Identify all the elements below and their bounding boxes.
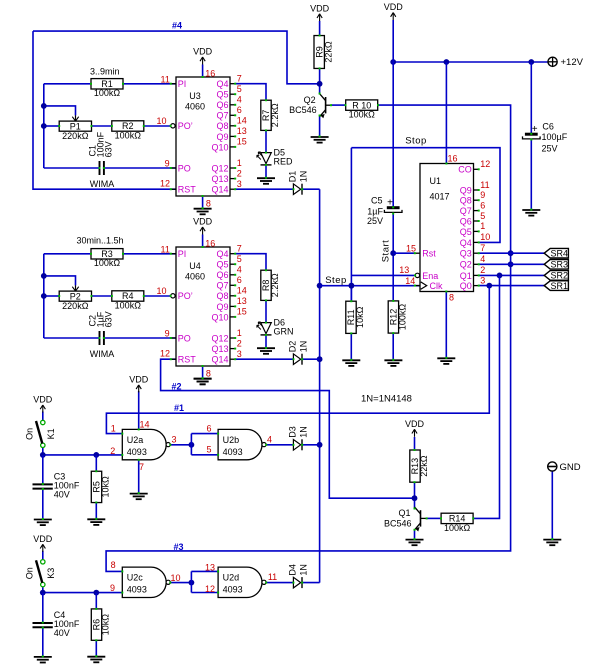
svg-text:RST: RST — [178, 185, 197, 195]
svg-text:8: 8 — [206, 368, 211, 378]
svg-text:+12V: +12V — [561, 57, 584, 68]
svg-text:100kΩ: 100kΩ — [444, 523, 471, 533]
svg-text:VDD: VDD — [33, 534, 53, 544]
svg-text:10: 10 — [170, 573, 180, 583]
svg-text:Step: Step — [325, 275, 347, 286]
svg-text:Q8: Q8 — [460, 196, 472, 206]
svg-text:1: 1 — [480, 221, 485, 231]
svg-text:4093: 4093 — [223, 447, 243, 457]
svg-text:8: 8 — [449, 293, 454, 303]
svg-text:30min..1.5h: 30min..1.5h — [76, 236, 123, 246]
svg-text:U2a: U2a — [127, 435, 144, 445]
svg-text:PO’: PO’ — [178, 121, 193, 131]
svg-text:11: 11 — [161, 244, 170, 254]
svg-text:15: 15 — [237, 307, 247, 317]
svg-text:VDD: VDD — [129, 374, 149, 384]
svg-text:U1: U1 — [430, 176, 442, 186]
svg-text:10: 10 — [157, 286, 167, 296]
svg-text:VDD: VDD — [405, 419, 425, 429]
svg-text:9: 9 — [480, 190, 485, 200]
svg-text:Rst: Rst — [422, 249, 436, 259]
svg-text:12: 12 — [160, 349, 170, 359]
svg-text:7: 7 — [480, 243, 485, 253]
svg-text:+: + — [387, 198, 393, 209]
svg-text:40V: 40V — [54, 628, 70, 638]
svg-text:U4: U4 — [189, 261, 201, 271]
svg-text:Q6: Q6 — [216, 100, 228, 110]
svg-text:1N: 1N — [299, 171, 309, 183]
svg-text:1N=1N4148: 1N=1N4148 — [361, 394, 412, 405]
svg-text:Q9: Q9 — [216, 302, 228, 312]
svg-text:12: 12 — [480, 159, 490, 169]
svg-text:220kΩ: 220kΩ — [62, 301, 89, 311]
svg-text:4: 4 — [237, 95, 242, 105]
svg-text:RST: RST — [178, 355, 197, 365]
svg-text:Q13: Q13 — [211, 344, 228, 354]
svg-text:100µF: 100µF — [542, 132, 568, 142]
svg-text:Q0: Q0 — [460, 281, 472, 291]
svg-text:D4: D4 — [288, 564, 298, 576]
svg-text:U2d: U2d — [223, 573, 240, 583]
svg-text:Q13: Q13 — [211, 174, 228, 184]
svg-text:PO: PO — [178, 163, 191, 173]
svg-text:U2c: U2c — [127, 573, 144, 583]
svg-text:3: 3 — [237, 349, 242, 359]
svg-text:Q4: Q4 — [460, 238, 472, 248]
svg-text:4060: 4060 — [185, 102, 205, 112]
svg-text:U2b: U2b — [223, 435, 240, 445]
svg-text:100kΩ: 100kΩ — [349, 110, 376, 120]
svg-text:4060: 4060 — [185, 272, 205, 282]
svg-text:Clk: Clk — [430, 281, 443, 291]
svg-text:D2: D2 — [288, 341, 298, 353]
svg-text:Q1: Q1 — [398, 508, 410, 518]
svg-text:4093: 4093 — [127, 447, 147, 457]
svg-text:22kΩ: 22kΩ — [323, 41, 333, 63]
svg-text:Ena: Ena — [422, 271, 438, 281]
svg-text:C5: C5 — [371, 195, 383, 205]
svg-text:Q9: Q9 — [216, 132, 228, 142]
svg-text:1: 1 — [111, 424, 116, 434]
svg-text:VDD: VDD — [33, 395, 53, 405]
svg-text:1N: 1N — [299, 564, 309, 576]
svg-text:100kΩ: 100kΩ — [94, 258, 121, 268]
svg-text:WIMA: WIMA — [90, 179, 115, 189]
svg-text:Q14: Q14 — [211, 185, 228, 195]
svg-text:63V: 63V — [104, 311, 114, 327]
svg-text:2.2kΩ: 2.2kΩ — [270, 103, 280, 127]
svg-text:On: On — [24, 428, 34, 440]
svg-text:#3: #3 — [173, 542, 183, 552]
svg-text:14: 14 — [405, 276, 415, 286]
svg-text:16: 16 — [205, 238, 215, 248]
svg-text:4: 4 — [267, 434, 272, 444]
svg-text:Q7: Q7 — [216, 281, 228, 291]
svg-text:15: 15 — [237, 137, 247, 147]
svg-text:10: 10 — [480, 232, 490, 242]
svg-text:Q7: Q7 — [216, 111, 228, 121]
svg-text:GND: GND — [560, 462, 581, 473]
svg-text:Q3: Q3 — [460, 249, 472, 259]
svg-text:25V: 25V — [367, 216, 383, 226]
svg-text:2: 2 — [110, 446, 115, 456]
svg-text:K1: K1 — [46, 428, 56, 439]
svg-text:Q5: Q5 — [460, 227, 472, 237]
svg-text:14: 14 — [237, 286, 247, 296]
svg-text:22kΩ: 22kΩ — [419, 455, 429, 477]
svg-text:Q4: Q4 — [216, 249, 228, 259]
svg-text:7: 7 — [237, 74, 242, 84]
svg-text:4017: 4017 — [430, 191, 450, 201]
svg-text:13: 13 — [237, 296, 247, 306]
svg-text:14: 14 — [139, 419, 149, 429]
svg-text:Start: Start — [381, 240, 392, 263]
svg-text:10kΩ: 10kΩ — [101, 614, 111, 636]
svg-text:RED: RED — [274, 157, 294, 167]
svg-text:SR4: SR4 — [551, 249, 569, 259]
svg-text:CO: CO — [458, 165, 472, 175]
svg-text:2: 2 — [237, 338, 242, 348]
svg-text:12: 12 — [205, 584, 215, 594]
svg-text:100kΩ: 100kΩ — [115, 300, 142, 310]
svg-text:14: 14 — [237, 116, 247, 126]
svg-text:11: 11 — [268, 572, 277, 582]
svg-text:2: 2 — [237, 168, 242, 178]
svg-text:100kΩ: 100kΩ — [398, 304, 408, 331]
svg-text:4: 4 — [237, 265, 242, 275]
svg-text:VDD: VDD — [384, 2, 404, 12]
svg-text:+: + — [532, 124, 538, 135]
svg-text:10kΩ: 10kΩ — [355, 306, 365, 328]
svg-text:Q4: Q4 — [216, 79, 228, 89]
svg-text:5: 5 — [206, 445, 211, 455]
svg-text:4093: 4093 — [127, 585, 147, 595]
svg-text:VDD: VDD — [310, 3, 330, 13]
svg-text:5: 5 — [237, 84, 242, 94]
svg-text:Q7: Q7 — [460, 206, 472, 216]
svg-text:1N: 1N — [299, 426, 309, 438]
svg-text:Q14: Q14 — [211, 355, 228, 365]
svg-text:4093: 4093 — [223, 585, 243, 595]
svg-text:10: 10 — [157, 116, 167, 126]
svg-text:VDD: VDD — [193, 217, 213, 227]
svg-text:Q2: Q2 — [460, 260, 472, 270]
svg-text:5: 5 — [480, 211, 485, 221]
svg-text:13: 13 — [205, 563, 215, 573]
svg-text:C6: C6 — [542, 122, 554, 132]
svg-text:PO’: PO’ — [178, 291, 193, 301]
svg-text:13: 13 — [237, 126, 247, 136]
svg-text:6: 6 — [480, 200, 485, 210]
svg-text:2.2kΩ: 2.2kΩ — [270, 273, 280, 297]
svg-text:D3: D3 — [288, 426, 298, 438]
svg-text:VDD: VDD — [193, 47, 213, 57]
svg-text:3: 3 — [171, 435, 176, 445]
svg-text:Q10: Q10 — [211, 142, 228, 152]
svg-text:7: 7 — [237, 244, 242, 254]
svg-text:Q8: Q8 — [216, 121, 228, 131]
svg-text:#1: #1 — [174, 403, 184, 413]
svg-text:BC546: BC546 — [289, 105, 317, 115]
svg-text:4: 4 — [480, 254, 485, 264]
svg-text:9: 9 — [165, 328, 170, 338]
svg-text:Q6: Q6 — [216, 270, 228, 280]
svg-text:16: 16 — [205, 68, 215, 78]
svg-text:3: 3 — [480, 275, 485, 285]
svg-text:GRN: GRN — [274, 327, 294, 337]
svg-text:Stop: Stop — [405, 136, 427, 147]
svg-text:100kΩ: 100kΩ — [94, 88, 121, 98]
svg-text:U3: U3 — [189, 91, 201, 101]
svg-text:Q5: Q5 — [216, 90, 228, 100]
svg-text:PI: PI — [178, 79, 187, 89]
svg-text:PO: PO — [178, 333, 191, 343]
svg-text:D1: D1 — [288, 171, 298, 183]
svg-text:6: 6 — [237, 275, 242, 285]
svg-text:3..9min: 3..9min — [90, 66, 120, 76]
svg-text:PI: PI — [178, 249, 187, 259]
svg-text:1: 1 — [237, 328, 242, 338]
svg-text:Q12: Q12 — [211, 333, 228, 343]
svg-text:Q2: Q2 — [304, 95, 316, 105]
svg-text:Q10: Q10 — [211, 312, 228, 322]
svg-text:6: 6 — [237, 105, 242, 115]
svg-text:SR2: SR2 — [551, 271, 569, 281]
svg-text:1: 1 — [237, 158, 242, 168]
svg-text:Q9: Q9 — [460, 185, 472, 195]
svg-text:Q5: Q5 — [216, 260, 228, 270]
svg-text:Q12: Q12 — [211, 163, 228, 173]
svg-text:5: 5 — [237, 254, 242, 264]
svg-text:2: 2 — [480, 265, 485, 275]
svg-text:63V: 63V — [104, 141, 114, 157]
svg-text:P2: P2 — [70, 291, 81, 301]
svg-text:11: 11 — [480, 180, 489, 190]
svg-text:K3: K3 — [46, 568, 56, 579]
svg-text:9: 9 — [110, 583, 115, 593]
svg-text:1N: 1N — [299, 341, 309, 353]
svg-text:#2: #2 — [171, 381, 181, 391]
svg-text:On: On — [24, 567, 34, 579]
svg-text:8: 8 — [206, 198, 211, 208]
svg-text:P1: P1 — [70, 121, 81, 131]
svg-text:9: 9 — [165, 158, 170, 168]
svg-text:220kΩ: 220kΩ — [62, 131, 89, 141]
svg-text:7: 7 — [139, 462, 144, 472]
svg-text:12: 12 — [160, 179, 170, 189]
svg-text:SR1: SR1 — [551, 281, 569, 291]
svg-text:25V: 25V — [542, 144, 558, 154]
svg-text:Q8: Q8 — [216, 291, 228, 301]
svg-text:Q1: Q1 — [460, 271, 472, 281]
svg-text:100kΩ: 100kΩ — [115, 130, 142, 140]
svg-text:WIMA: WIMA — [90, 349, 115, 359]
svg-text:10kΩ: 10kΩ — [101, 476, 111, 498]
svg-text:Q6: Q6 — [460, 216, 472, 226]
svg-text:40V: 40V — [54, 489, 70, 499]
svg-text:15: 15 — [406, 243, 416, 253]
svg-text:SR3: SR3 — [551, 260, 569, 270]
svg-text:#4: #4 — [172, 21, 182, 31]
svg-text:6: 6 — [206, 424, 211, 434]
svg-text:8: 8 — [111, 560, 116, 570]
svg-text:13: 13 — [399, 265, 409, 275]
svg-text:11: 11 — [161, 74, 170, 84]
svg-text:BC546: BC546 — [384, 518, 412, 528]
svg-text:16: 16 — [448, 153, 458, 163]
svg-text:3: 3 — [237, 179, 242, 189]
